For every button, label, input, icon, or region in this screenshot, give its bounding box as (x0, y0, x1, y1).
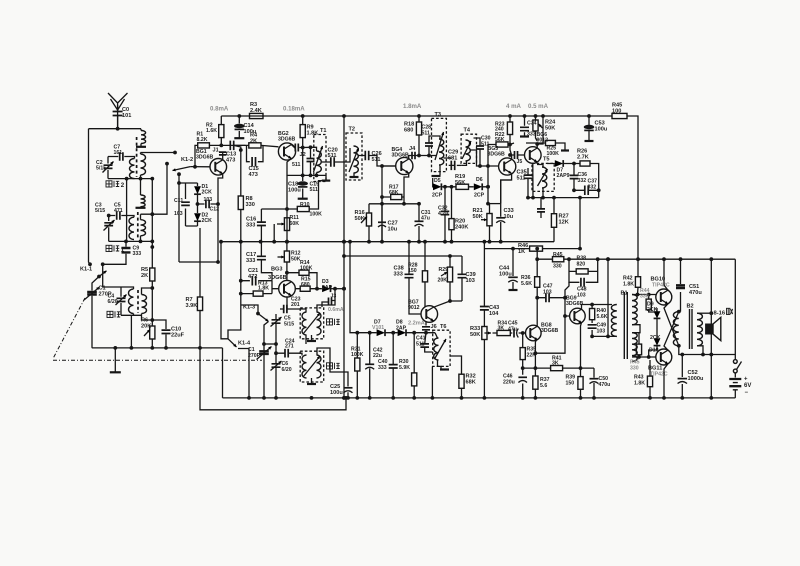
svg-text:680: 680 (301, 282, 310, 288)
svg-text:511: 511 (416, 342, 424, 348)
wire bottom bus (223, 397, 736, 399)
wire C36 col (573, 164, 575, 191)
svg-text:150: 150 (566, 381, 575, 387)
resistor R18 (416, 122, 421, 135)
diode D6 (474, 183, 482, 190)
trimmer arrow T1 (314, 146, 323, 172)
variable capacitor C1b (259, 351, 269, 354)
svg-text:R11: R11 (290, 215, 299, 221)
wire C1b col (264, 322, 269, 398)
electrolytic C50 (590, 378, 599, 380)
resistor R10 (297, 206, 309, 211)
wire K1-2 common (178, 174, 180, 262)
junction e col (285, 207, 289, 244)
wire snubber col (591, 305, 593, 337)
svg-text:333: 333 (246, 223, 255, 229)
ground T3 (432, 175, 441, 177)
svg-text:T2: T2 (349, 127, 356, 133)
svg-text:C52: C52 (688, 370, 698, 376)
wire sec2 stubs (140, 214, 142, 241)
wire C30 col (474, 138, 481, 166)
svg-text:103: 103 (597, 329, 606, 335)
svg-text:J4: J4 (409, 146, 416, 152)
potentiometer R16 (366, 213, 371, 226)
svg-text:3DG6B: 3DG6B (488, 151, 506, 157)
svg-text:511: 511 (422, 131, 430, 137)
wire C47 line (537, 298, 570, 316)
svg-text:20K: 20K (141, 324, 151, 330)
label osc mw (327, 363, 333, 369)
wire C34 col (524, 116, 526, 136)
svg-text:R27: R27 (559, 214, 569, 220)
coil MW primary (128, 289, 133, 314)
wire battery bottom (734, 390, 736, 398)
resistor R38 (576, 269, 588, 274)
wire R45b col (638, 333, 640, 357)
coil L2 secondary (141, 220, 146, 236)
variable capacitor C1 (87, 292, 97, 295)
junction R28 bot (448, 299, 452, 303)
wire C53 col (588, 116, 590, 141)
wire C5b col (275, 314, 277, 344)
svg-text:103: 103 (577, 293, 586, 299)
junction bgs base (486, 185, 490, 206)
potentiometer R21 (487, 214, 492, 226)
svg-text:3K: 3K (498, 326, 505, 332)
svg-text:C29: C29 (448, 150, 458, 156)
trimmer arrow osc sw (303, 313, 320, 334)
svg-text:C15: C15 (249, 166, 259, 172)
wire sec1 stubs (140, 153, 142, 179)
electrolytic C14 (235, 124, 245, 127)
junction R36 col (535, 296, 539, 300)
ground coupling 1 (136, 146, 146, 148)
svg-text:C50: C50 (599, 376, 609, 382)
junction bottom bus (247, 396, 713, 400)
svg-text:R39: R39 (566, 375, 576, 381)
capacitor C16 (257, 222, 266, 225)
capacitor C7 (120, 152, 123, 161)
wire X diag (664, 304, 679, 351)
wire det line (433, 178, 488, 187)
resistor R40 (590, 309, 595, 320)
dashed box T3 (432, 118, 447, 171)
svg-text:C26: C26 (372, 151, 382, 157)
svg-text:C43: C43 (489, 305, 499, 311)
coil T6 (434, 338, 439, 360)
wire C14 col (238, 116, 240, 138)
svg-text:J5: J5 (517, 159, 523, 165)
capacitor C39 (458, 274, 467, 277)
svg-text:C21: C21 (248, 268, 258, 274)
label band sw2 (106, 181, 112, 187)
wire C27 col (381, 204, 383, 242)
junction det (443, 185, 490, 189)
ground T2 (350, 176, 359, 178)
coil L2 antenna coupling (141, 195, 146, 207)
svg-text:161: 161 (114, 150, 123, 156)
wire T2 bot (353, 173, 355, 177)
svg-text:1000u: 1000u (688, 376, 704, 382)
wire block to base (565, 282, 569, 297)
svg-text:8.2K: 8.2K (197, 137, 208, 143)
resistor R17 (391, 194, 402, 199)
svg-text:C17: C17 (246, 252, 256, 258)
junction C30 (478, 164, 490, 168)
electrolytic C52 (678, 378, 688, 380)
wire diode mid (656, 319, 658, 339)
wire R31 col (356, 333, 358, 398)
trimmer capacitor C2 (104, 165, 113, 168)
wire J5 (510, 154, 525, 156)
wire BG5 base col (487, 166, 489, 204)
svg-text:1.6K: 1.6K (206, 128, 217, 134)
ground T6 (440, 368, 449, 370)
svg-text:103: 103 (174, 211, 183, 217)
electrolytic C51 (676, 285, 685, 288)
svg-text:201: 201 (291, 302, 300, 308)
wire bus interlink (200, 348, 346, 410)
capacitor C9 (122, 248, 131, 252)
svg-text:T3: T3 (435, 112, 442, 118)
wire BG9 collector (582, 305, 613, 310)
svg-text:10u: 10u (388, 227, 398, 233)
wire R29 supply line (344, 255, 462, 257)
wire BG5 emitter (501, 173, 512, 203)
junction r29 line (448, 254, 452, 258)
wire to R4 (234, 145, 279, 146)
wire spk top (697, 312, 711, 314)
potentiometer R6 (150, 326, 155, 339)
wire J6 out (425, 331, 427, 333)
svg-text:R10: R10 (300, 202, 310, 208)
wire left loop (89, 129, 91, 265)
wire BG2 e col (286, 175, 288, 242)
capacitor C29 (451, 161, 454, 171)
label MW (107, 311, 113, 317)
wire emitter osc link (179, 261, 218, 263)
resistor R19 (456, 184, 469, 189)
wire T3 sec (444, 158, 455, 165)
svg-text:150: 150 (408, 268, 417, 274)
junction b1 bottom (606, 335, 610, 339)
potentiometer R33 (482, 327, 487, 340)
diode D7b (377, 329, 385, 336)
svg-text:R6: R6 (141, 318, 148, 324)
wire tank2 bottom (109, 240, 153, 242)
wire tank1 left (107, 157, 109, 179)
svg-text:R45: R45 (553, 252, 563, 258)
wire C9 col (103, 241, 126, 264)
potentiometer R11 (284, 218, 289, 231)
svg-text:C38: C38 (394, 266, 404, 272)
wire C33 col (500, 204, 502, 242)
wire R12 col (286, 242, 288, 281)
svg-text:D3: D3 (322, 279, 329, 285)
wire R44 col (649, 295, 657, 313)
wire C28 (429, 136, 440, 156)
junction emitter line (402, 202, 421, 206)
svg-text:100u: 100u (288, 188, 301, 194)
svg-text:3DG6B: 3DG6B (268, 275, 287, 281)
wire C16 col (261, 209, 287, 242)
coil B2 secondary (697, 313, 702, 346)
capacitor C20 (331, 157, 334, 167)
wire C25 col (347, 392, 349, 398)
svg-text:+: + (744, 377, 748, 383)
battery 6V (729, 379, 741, 386)
svg-text:C35: C35 (517, 170, 527, 176)
svg-text:C46: C46 (503, 374, 513, 380)
svg-text:R43: R43 (634, 375, 644, 381)
wire spk col (710, 259, 712, 398)
wire R34 line (493, 332, 526, 334)
svg-text:D8: D8 (396, 320, 403, 326)
svg-text:C39: C39 (466, 272, 476, 278)
coil T3 (439, 139, 444, 165)
wire C35 col (527, 168, 529, 198)
svg-text:C47: C47 (543, 284, 553, 290)
svg-text:R24: R24 (545, 120, 556, 126)
trimmer capacitor C4 (117, 298, 126, 301)
svg-text:R45: R45 (612, 103, 622, 109)
wire C31 col (418, 204, 420, 242)
svg-text:10u: 10u (504, 214, 514, 220)
resistor R42 (635, 277, 640, 288)
capacitor C17 (257, 256, 266, 259)
svg-text:330: 330 (640, 293, 649, 299)
svg-text:R37: R37 (540, 377, 550, 383)
coil T1 (317, 151, 322, 173)
svg-text:270P: 270P (248, 353, 261, 359)
wire C32 col (444, 187, 446, 242)
wire BG9 emitter (581, 323, 582, 398)
junction antenna (116, 127, 120, 131)
wire spk bot (697, 346, 703, 355)
svg-text:C49: C49 (597, 323, 607, 329)
wire coupling stub (140, 129, 142, 147)
wire T2 in (346, 148, 350, 162)
svg-text:4.7u: 4.7u (438, 211, 448, 217)
diode D8 (398, 329, 406, 336)
wire C17 col (260, 242, 262, 268)
junction T1 (301, 145, 319, 177)
svg-text:0.8mA: 0.8mA (210, 106, 229, 113)
wire bg10 base (632, 294, 656, 296)
svg-text:5.9K: 5.9K (399, 365, 410, 371)
svg-text:R12: R12 (291, 251, 301, 257)
wire BG4 emitter (404, 173, 409, 204)
junction C24 (274, 351, 278, 355)
jack J5 (515, 151, 518, 159)
svg-text:5/15: 5/15 (284, 322, 294, 328)
wire R15 line (295, 288, 322, 290)
wire R35 col (522, 333, 524, 398)
ground left (114, 348, 116, 372)
coil osc sw L (302, 312, 307, 335)
wire C17b (261, 268, 272, 281)
capacitor C5 (117, 211, 120, 220)
wire x637 (637, 259, 640, 294)
resistor R43 (647, 376, 652, 387)
resistor R7 (197, 297, 202, 311)
wire C41 col (425, 333, 433, 352)
svg-text:271: 271 (285, 344, 294, 350)
ground coupling 2 (136, 207, 146, 209)
svg-text:20K: 20K (438, 278, 448, 284)
electrolytic C31 (415, 220, 424, 222)
dashed box T5 (532, 163, 554, 191)
svg-text:C18: C18 (288, 182, 298, 188)
resistor R3 (250, 113, 264, 118)
wire R43 col (649, 360, 651, 398)
capacitor C43 (480, 307, 489, 310)
svg-text:332: 332 (588, 185, 597, 191)
svg-text:R26: R26 (577, 149, 587, 155)
trimmer arrow osc mw (303, 356, 320, 377)
junction collector (219, 144, 223, 148)
diode D9 (654, 311, 661, 318)
svg-text:C34: C34 (527, 121, 537, 127)
resistor R20 (449, 219, 454, 230)
coil B2 primary (673, 312, 678, 346)
svg-text:0.18mA: 0.18mA (283, 106, 305, 113)
electrolytic C46 (518, 376, 527, 378)
wire sec to K1-2a (141, 152, 176, 154)
svg-text:9012: 9012 (408, 305, 420, 311)
coil osc sw R (317, 312, 322, 335)
wire limiter frame (179, 183, 198, 226)
svg-text:R40: R40 (597, 308, 607, 314)
svg-text:R32: R32 (466, 374, 476, 380)
wire R20 col (451, 187, 453, 242)
resistor R9 (300, 125, 305, 138)
svg-text:47u: 47u (421, 215, 430, 221)
dashed box T1 (314, 135, 326, 182)
wire C12 stub (198, 203, 219, 205)
svg-text:C30: C30 (481, 136, 491, 142)
svg-text:3.9K: 3.9K (186, 303, 198, 309)
trimmer arrow T4 (462, 141, 471, 159)
resistor R41 (551, 366, 563, 371)
wire BG8 emitter (535, 339, 537, 398)
diode D1 (194, 186, 201, 194)
wire C29 out (457, 164, 461, 166)
transistor BG9 (570, 308, 586, 324)
wire D3 out (331, 288, 344, 290)
svg-text:C28: C28 (422, 125, 432, 131)
svg-text:T1: T1 (320, 128, 327, 134)
wire R30 col (413, 333, 415, 398)
wire BG5 collector (510, 145, 512, 160)
wire R27 col (553, 198, 555, 242)
svg-text:R42: R42 (623, 276, 633, 282)
svg-text:3DG6B: 3DG6B (278, 136, 296, 142)
resistor R4 (249, 143, 261, 148)
wire bg8 to bg9 base (535, 316, 565, 353)
svg-text:6/20: 6/20 (108, 299, 118, 305)
svg-text:1.8K: 1.8K (307, 131, 319, 137)
svg-text:100K: 100K (310, 212, 323, 218)
resistor R39 (578, 377, 583, 390)
diode D3 (322, 285, 330, 292)
coil B1 primary (611, 305, 616, 337)
wire R13 line (241, 293, 272, 295)
wire T5 out (547, 164, 599, 198)
wire R6 col (151, 320, 153, 348)
svg-text:V101: V101 (372, 325, 384, 331)
svg-text:22uF: 22uF (171, 333, 185, 339)
svg-text:D6: D6 (476, 177, 483, 183)
wire diode line (350, 242, 435, 333)
junction limiter (177, 181, 199, 206)
svg-text:R9: R9 (307, 125, 314, 131)
svg-text:473: 473 (226, 158, 235, 164)
electrolytic C18 (298, 182, 308, 185)
wire switch col (734, 259, 736, 359)
svg-text:R20: R20 (455, 219, 465, 225)
svg-text:103: 103 (466, 278, 475, 284)
wire d10 bot (649, 346, 657, 357)
svg-text:2CK: 2CK (202, 189, 213, 195)
capacitor C0 (117, 105, 119, 129)
ground osc sw (307, 340, 316, 342)
capacitor C15 (252, 157, 255, 167)
resistor R32 (459, 374, 464, 388)
junction tank2 bottom (107, 214, 154, 244)
svg-text:C5: C5 (284, 316, 291, 322)
resistor R22 (496, 142, 508, 147)
junction R9 col (301, 146, 305, 150)
junction K1-2 throws (165, 151, 181, 177)
wire bg11 collector (664, 364, 668, 398)
resistor R25 (546, 140, 556, 145)
svg-text:C53: C53 (595, 121, 605, 127)
diode D2 (194, 213, 201, 221)
svg-text:C14: C14 (244, 123, 255, 129)
svg-text:C1: C1 (248, 347, 255, 353)
svg-text:3DG6B: 3DG6B (541, 328, 559, 334)
svg-text:C16: C16 (246, 217, 256, 223)
wire C15 loop (247, 145, 264, 161)
svg-text:6V: 6V (744, 383, 751, 389)
transistor BG3 (279, 280, 296, 297)
wire tank2 left (108, 216, 110, 242)
wire R5 col (151, 247, 153, 320)
electrolytic C33 (496, 217, 505, 219)
core T-sw1 (137, 212, 139, 238)
svg-text:471: 471 (114, 208, 123, 214)
svg-text:2.4K: 2.4K (250, 108, 262, 114)
svg-text:681: 681 (448, 156, 457, 162)
diode D7 (555, 160, 563, 167)
svg-text:T5: T5 (543, 157, 550, 163)
wire agc up (501, 180, 512, 204)
coil osc mw R (317, 355, 322, 378)
svg-text:50K: 50K (545, 126, 555, 132)
svg-text:5.6: 5.6 (540, 383, 547, 389)
capacitor C41 (420, 344, 429, 347)
wire C52 col (681, 355, 683, 398)
capacitor C32 (441, 211, 450, 214)
svg-text:T4: T4 (464, 128, 471, 134)
jack J6 (422, 327, 430, 330)
potentiometer R12 (284, 251, 289, 262)
wire R7 col (199, 228, 201, 348)
svg-text:240K: 240K (455, 225, 468, 231)
svg-text:1.8mA: 1.8mA (403, 103, 422, 110)
svg-text:47u: 47u (508, 327, 517, 333)
